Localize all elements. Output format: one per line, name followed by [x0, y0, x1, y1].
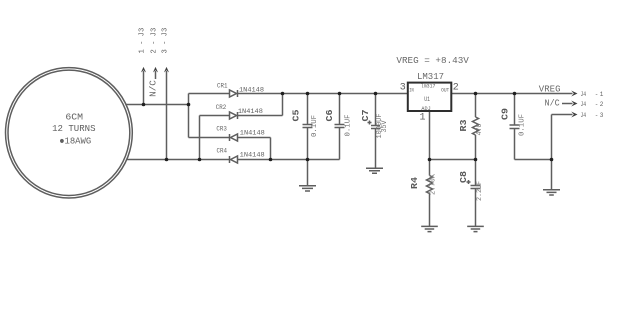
svg-text:1: 1	[419, 113, 425, 124]
svg-text:1: 1	[600, 91, 604, 98]
svg-text:12 TURNS: 12 TURNS	[52, 123, 96, 134]
svg-text:ADJ: ADJ	[421, 105, 430, 112]
svg-text:R4: R4	[409, 177, 420, 189]
svg-text:2.70K: 2.70K	[430, 173, 438, 195]
svg-text:-: -	[595, 112, 599, 119]
svg-text:2: 2	[600, 101, 604, 108]
svg-text:C6: C6	[324, 109, 335, 121]
svg-text:J4: J4	[581, 101, 587, 108]
svg-text:-: -	[595, 91, 599, 98]
svg-text:0.1UF: 0.1UF	[519, 114, 527, 136]
svg-text:C5: C5	[291, 109, 302, 121]
svg-text:35V: 35V	[381, 120, 389, 133]
svg-text:3: 3	[600, 112, 604, 119]
svg-text:U1: U1	[424, 96, 430, 103]
svg-text:●18AWG: ●18AWG	[59, 135, 91, 146]
svg-text:IN: IN	[409, 87, 414, 94]
svg-text:3 - J3: 3 - J3	[162, 28, 170, 54]
svg-text:2: 2	[453, 83, 459, 94]
svg-text:J4: J4	[581, 91, 587, 98]
svg-text:6CM: 6CM	[65, 112, 83, 123]
svg-text:0.1UF: 0.1UF	[311, 115, 319, 137]
svg-text:CR1: CR1	[217, 83, 228, 90]
svg-text:R3: R3	[458, 119, 469, 131]
svg-text:2 - J3: 2 - J3	[151, 28, 159, 54]
svg-text:lm317: lm317	[421, 83, 436, 90]
svg-text:VREG: VREG	[539, 83, 561, 94]
svg-text:C9: C9	[500, 108, 511, 120]
svg-text:1N4148: 1N4148	[238, 108, 263, 115]
svg-text:3: 3	[400, 83, 406, 94]
svg-text:470: 470	[476, 124, 484, 136]
svg-text:OUT: OUT	[441, 87, 450, 94]
svg-text:CR4: CR4	[217, 148, 228, 155]
svg-text:N/C: N/C	[148, 80, 159, 97]
svg-text:2.2UF: 2.2UF	[476, 181, 484, 201]
svg-text:LM317: LM317	[417, 71, 444, 82]
svg-text:N/C: N/C	[545, 98, 560, 109]
svg-text:-: -	[595, 101, 599, 108]
svg-text:0.1UF: 0.1UF	[345, 115, 353, 137]
svg-text:CR2: CR2	[216, 104, 227, 111]
svg-text:1N4148: 1N4148	[240, 130, 265, 137]
svg-text:C7: C7	[360, 109, 371, 121]
svg-text:CR3: CR3	[216, 126, 227, 133]
svg-text:J4: J4	[581, 112, 587, 119]
svg-text:VREG = +8.43V: VREG = +8.43V	[396, 55, 469, 66]
svg-text:C8: C8	[458, 171, 469, 183]
svg-text:1N4148: 1N4148	[239, 86, 264, 93]
svg-text:1N4148: 1N4148	[240, 152, 265, 159]
svg-text:1 - J3: 1 - J3	[139, 28, 147, 54]
